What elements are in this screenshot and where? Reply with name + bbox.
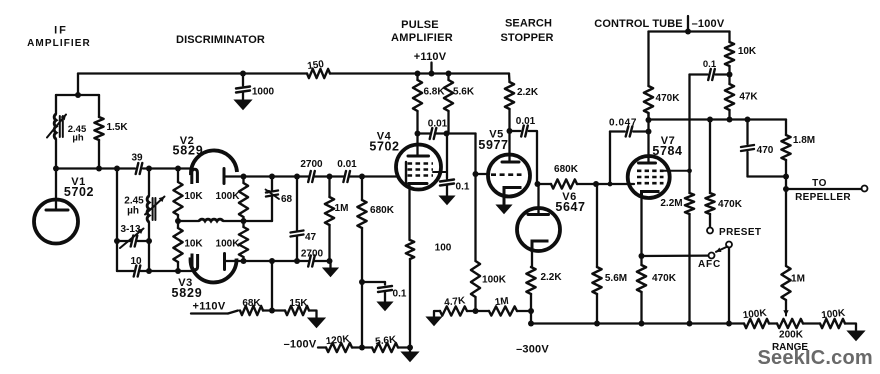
wire main bus left: [56, 167, 135, 169]
node 1.8M dots: [783, 174, 789, 180]
tube V2 envelope arc: [191, 150, 237, 175]
wire 0.047 link a: [610, 130, 625, 132]
electrode V5 cathode: [504, 188, 522, 206]
resistor R 10K upper: [177, 169, 179, 183]
inductor L1 2.45uh variable: [54, 114, 56, 139]
wire 120K-5.6K link: [352, 346, 372, 348]
svg-text:10K: 10K: [738, 46, 757, 57]
ground for 1000: [235, 100, 252, 110]
ground bottom right: [848, 331, 865, 341]
svg-text:5647: 5647: [555, 200, 585, 214]
svg-text:1M: 1M: [494, 296, 509, 308]
svg-text:5.6K: 5.6K: [453, 87, 475, 98]
capacitor 470: [746, 120, 748, 145]
electrode V7 cathode: [642, 192, 660, 199]
wire tank right lower: [98, 140, 100, 169]
node grid tap dot: [687, 168, 692, 173]
svg-text:2700: 2700: [301, 249, 324, 260]
resistor R 470K preset: [709, 120, 711, 194]
wire V3 right tick: [225, 260, 244, 262]
node V5 grid node: [473, 171, 479, 177]
wire +110V rail left: [78, 72, 307, 74]
svg-text:AMPLIFIER: AMPLIFIER: [27, 38, 91, 49]
wire 0.1 branch: [362, 281, 385, 283]
tube V7 envelope: [628, 156, 670, 198]
svg-text:1M: 1M: [791, 274, 805, 285]
node V5 plate junction: [507, 128, 513, 134]
svg-text:µh: µh: [127, 206, 139, 217]
svg-text:680K: 680K: [554, 164, 579, 175]
svg-text:6.8K: 6.8K: [423, 87, 445, 98]
svg-text:PRESET: PRESET: [719, 227, 761, 238]
svg-text:39: 39: [131, 153, 143, 164]
wire bottom line: [531, 322, 744, 324]
resistor R 100K grid leak: [474, 174, 476, 261]
tube V5 envelope: [488, 155, 530, 197]
node 680K out: [593, 181, 599, 187]
wire 3-13 link left: [117, 240, 131, 242]
resistor R 100K upper: [242, 177, 244, 184]
wire column x149 mid: [148, 222, 150, 241]
wire -100V rail: [649, 30, 730, 32]
resistor R 4.7K: [440, 306, 467, 315]
wire 68K-15K link: [263, 309, 285, 311]
wire tank left upper: [55, 95, 57, 114]
resistor R 100K bottom right: [820, 319, 845, 328]
inductor L3 center tap: [199, 219, 223, 221]
wire 15K to ground: [309, 311, 317, 319]
node 680K col at bus: [359, 345, 365, 351]
svg-text:15K: 15K: [289, 298, 308, 309]
resistor R 1.8M: [785, 120, 787, 136]
svg-text:0.01: 0.01: [516, 116, 536, 127]
wire plate out a: [418, 132, 431, 134]
svg-text:0.1: 0.1: [703, 59, 717, 70]
wire top out line a: [244, 175, 310, 177]
wire mid line right: [223, 220, 272, 222]
svg-text:5829: 5829: [171, 286, 202, 300]
electrode V7 plate: [639, 162, 656, 165]
ground for V5 cathode: [497, 205, 512, 214]
wire V5 plate out a: [510, 130, 521, 132]
svg-text:µh: µh: [72, 133, 83, 144]
svg-text:0.047: 0.047: [609, 118, 637, 129]
svg-text:5977: 5977: [478, 138, 508, 152]
resistor R 15K: [285, 306, 309, 315]
resistor R 470K supply: [647, 32, 649, 87]
electrode V6 cathode: [532, 241, 549, 252]
resistor R 6.8K: [416, 74, 418, 81]
svg-text:IF: IF: [54, 25, 68, 37]
wire to V5 grid: [476, 173, 490, 175]
resistor R 1M: [328, 177, 330, 198]
electrode V4 cathode: [409, 182, 428, 185]
svg-text:47K: 47K: [739, 92, 758, 103]
wire to ground bottom right: [845, 324, 856, 332]
ground for 4.7K: [427, 317, 442, 326]
electrode V4 grids dashed: [408, 162, 434, 165]
ground at bus end: [409, 348, 411, 353]
resistor 150 on rail: [307, 69, 330, 78]
ground for 15K: [308, 318, 325, 328]
wire 5.6K to cathode column: [398, 346, 410, 348]
svg-text:1M: 1M: [335, 203, 349, 214]
svg-text:5829: 5829: [172, 144, 203, 158]
wire 68 column lower: [271, 197, 273, 222]
capacitor 2700 coupling top: [308, 171, 311, 182]
wire tank right upper: [98, 95, 100, 117]
node screen node: [444, 131, 450, 137]
wire V6 cathode lead: [531, 241, 533, 267]
resistor R 470K AFC: [640, 256, 642, 265]
resistor R 200K range pot: [777, 319, 803, 328]
svg-text:470K: 470K: [656, 93, 681, 104]
node mid line dots: [175, 218, 181, 224]
node 10K-47K junction: [727, 72, 733, 78]
electrode V1 plate bar: [46, 209, 68, 212]
wire 2.2M column: [688, 75, 690, 171]
wire 68 column upper: [271, 177, 273, 191]
svg-text:100K: 100K: [216, 239, 241, 250]
svg-text:2.2K: 2.2K: [540, 272, 562, 283]
wire 0.047 riser: [609, 132, 611, 185]
wire 0.1 link b: [716, 73, 730, 75]
switch pivot: [726, 242, 732, 248]
svg-text:SEARCH: SEARCH: [505, 18, 552, 30]
electrode V3 left: [192, 254, 198, 270]
svg-text:PULSE: PULSE: [401, 19, 439, 31]
wire 68K link: [228, 311, 238, 314]
arrow pot wiper: [785, 304, 787, 316]
resistor R 1M bias: [489, 306, 517, 315]
wire 1M to V6 column: [517, 310, 531, 312]
node V6 col dots: [528, 308, 534, 314]
wire V2 right tick: [224, 175, 244, 177]
svg-text:AMPLIFIER: AMPLIFIER: [391, 32, 453, 44]
node top line dots: [241, 174, 247, 180]
electrode V6 plate: [528, 213, 549, 216]
wire bottom out line b: [315, 260, 330, 262]
wire coupling drop: [474, 134, 476, 175]
svg-text:1.8M: 1.8M: [793, 135, 815, 146]
terminal AFC contact: [709, 253, 715, 259]
terminal repeller: [862, 186, 868, 192]
wire top out line c: [350, 175, 399, 177]
wire to V7 grid: [596, 183, 634, 185]
wire V4 screen tick: [433, 171, 447, 173]
svg-text:REPELLER: REPELLER: [795, 192, 851, 203]
resistor R 5.6M: [596, 184, 598, 267]
svg-text:2700: 2700: [300, 159, 323, 170]
svg-text:100K: 100K: [482, 275, 507, 286]
svg-text:CONTROL TUBE: CONTROL TUBE: [594, 18, 682, 30]
inductor L2 2.45uh variable: [147, 196, 149, 222]
svg-text:10K: 10K: [184, 239, 203, 250]
svg-text:680K: 680K: [370, 205, 395, 216]
resistor R 120K: [326, 343, 352, 352]
capacitor 1000: [242, 74, 244, 86]
wire V6 col to bottom line: [530, 311, 532, 324]
wire bottom out line a: [244, 260, 310, 262]
ground at 1M bottom: [329, 261, 331, 268]
wire +110V rail right: [330, 72, 509, 74]
wire bias line: [649, 118, 787, 120]
wire cathode column lower: [409, 259, 411, 348]
capacitor 0.01 V4 out: [430, 128, 433, 139]
svg-text:200K: 200K: [779, 330, 804, 341]
svg-text:100K: 100K: [216, 191, 241, 202]
wire V4 cathode lead: [408, 184, 410, 241]
svg-text:0.1: 0.1: [393, 289, 407, 300]
ground for screen bypass: [440, 196, 455, 205]
svg-text:STOPPER: STOPPER: [500, 32, 553, 44]
wire repeller line: [786, 188, 862, 190]
wire 10 link left: [117, 270, 134, 272]
wire IF feed vertical: [77, 74, 79, 96]
svg-text:100: 100: [435, 243, 452, 254]
capacitor 3-13 variable: [131, 236, 134, 247]
wire 10 link right: [141, 270, 192, 272]
resistor R 2.2K plate: [505, 82, 514, 109]
svg-text:68: 68: [281, 194, 293, 205]
wire 47 column lower: [296, 237, 298, 262]
electrode V4 grid bracket: [405, 162, 407, 184]
node bias line dots: [707, 117, 713, 123]
capacitor 39: [136, 163, 139, 174]
wire 100K-200K link: [769, 322, 777, 324]
svg-text:0.1: 0.1: [456, 182, 470, 193]
electrode V7 grids dashed: [637, 170, 664, 173]
ground for 0.1 branch: [378, 302, 393, 311]
node 680K col tap: [359, 279, 365, 285]
tube V4 envelope: [396, 145, 441, 190]
electrode V5 grid dashed: [491, 173, 522, 176]
svg-text:+110V: +110V: [414, 51, 447, 63]
node rail junction dots: [240, 71, 246, 77]
node bias node: [473, 308, 479, 314]
wire 47 column upper: [296, 177, 298, 231]
node 3-13 dots: [114, 238, 120, 244]
terminal PRESET: [707, 228, 713, 234]
resistor R 2.2K cathode V6: [526, 267, 535, 294]
svg-text:4.7K: 4.7K: [444, 295, 467, 308]
wire pot wiper: [785, 300, 787, 313]
node tank top junction: [75, 92, 81, 98]
capacitor 0.1 top right: [708, 69, 711, 80]
svg-text:3-13: 3-13: [120, 224, 140, 235]
wire -100V lead: [318, 346, 326, 348]
node V4 plate junction: [415, 131, 421, 137]
capacitor 0.1 branch: [384, 282, 386, 285]
wire 4.7K gnd elbow: [434, 311, 440, 317]
node bottom-left dots: [146, 268, 152, 274]
resistor R 680K coupling: [537, 183, 551, 185]
electrode V4 plate: [408, 155, 429, 158]
node -100V dot: [685, 29, 691, 35]
svg-text:1.5K: 1.5K: [106, 122, 128, 133]
capacitor 10: [134, 266, 137, 277]
wire rail corner to 2.2K: [508, 74, 511, 83]
resistor R 2.2M: [685, 193, 694, 214]
svg-text:SeekIC.com: SeekIC.com: [758, 347, 873, 369]
svg-text:–100V: –100V: [284, 339, 317, 351]
node 0.047 tap: [608, 182, 613, 187]
svg-text:47: 47: [305, 232, 317, 243]
wire V5 plate out b: [529, 131, 537, 184]
node 470K bottom: [646, 117, 652, 123]
svg-text:TO: TO: [812, 178, 827, 189]
svg-text:+110V: +110V: [192, 301, 225, 313]
wire tank left lower: [55, 139, 57, 169]
svg-text:0.01: 0.01: [337, 159, 357, 170]
wire 470 bottom elbow: [748, 175, 787, 177]
resistor R 10K top right: [728, 32, 730, 43]
electrode V3 right bar: [223, 254, 226, 270]
svg-text:2.2M: 2.2M: [660, 198, 682, 209]
wire 68K junction riser: [271, 261, 273, 311]
wire column x149 upper: [148, 169, 150, 197]
wire AFC line: [642, 254, 709, 257]
switch arm with arrowhead: [716, 247, 728, 252]
wire tank top: [56, 94, 99, 96]
resistor R 10K lower: [177, 221, 179, 228]
resistor R 680K vertical: [361, 177, 363, 201]
svg-text:68K: 68K: [242, 298, 261, 309]
resistor R 68K: [240, 306, 263, 315]
electrode V2 left: [192, 169, 198, 184]
resistor R 100K bottom left: [744, 319, 769, 328]
wire 200K-100K link: [803, 322, 820, 324]
capacitor 0.01 V5 out: [521, 126, 524, 137]
capacitor 0.1 screen bypass: [446, 134, 448, 179]
svg-text:10K: 10K: [184, 191, 203, 202]
svg-text:1000: 1000: [252, 87, 275, 98]
node V6 plate node: [535, 181, 541, 187]
resistor R 100 cathode: [406, 240, 414, 259]
svg-text:5.6M: 5.6M: [605, 273, 627, 284]
electrode V5 plate: [502, 161, 519, 164]
wire V7 cathode lead: [640, 198, 642, 256]
wire top out line b: [315, 175, 345, 177]
capacitor 0.01 coupling top: [343, 171, 346, 182]
wire column x149 lower: [148, 241, 150, 271]
wire main bus right: [143, 167, 192, 169]
wire V1 plate lead: [55, 169, 57, 211]
svg-text:470: 470: [757, 145, 774, 156]
electrode V2 right bar: [223, 169, 226, 184]
capacitor 47: [291, 231, 304, 233]
resistor R 1M repeller: [781, 266, 790, 300]
node bus end: [407, 345, 413, 351]
wire switch column: [728, 248, 730, 324]
wire 0.1 link a: [690, 73, 708, 75]
capacitor 68 trimmer: [266, 191, 278, 193]
svg-text:470K: 470K: [718, 199, 743, 210]
svg-text:5702: 5702: [369, 140, 399, 154]
node bottom line dots: [241, 258, 247, 264]
tube V6 envelope: [517, 208, 560, 251]
resistor R 5.6K bus: [372, 343, 398, 352]
node bus dots: [53, 166, 59, 172]
wire V7 grid tap right: [664, 170, 690, 172]
node -100V top supply: [687, 16, 689, 30]
node V7 cathode junction: [639, 253, 645, 259]
wire plate out b: [435, 132, 475, 134]
node 68K junction: [269, 308, 275, 314]
resistor R 1.5K: [94, 117, 103, 140]
svg-text:–100V: –100V: [692, 18, 725, 30]
resistor R 5.6K screen: [447, 74, 449, 81]
tube V1 envelope: [34, 200, 78, 244]
svg-text:AFC: AFC: [698, 259, 721, 270]
resistor R 100K lower: [242, 221, 244, 227]
wire 3-13 link right: [138, 240, 150, 242]
svg-text:2.2K: 2.2K: [517, 87, 539, 98]
capacitor 0.047: [626, 127, 629, 137]
svg-text:–300V: –300V: [516, 344, 549, 356]
svg-text:10: 10: [130, 256, 142, 267]
svg-text:0.01: 0.01: [428, 119, 448, 130]
svg-text:5702: 5702: [64, 185, 94, 199]
wire 4.7K-1M link: [467, 310, 489, 312]
tube V3 envelope arc: [191, 258, 237, 283]
wire column x117 lower: [116, 241, 118, 271]
svg-text:470K: 470K: [652, 273, 677, 284]
wire 0.047 link b: [633, 130, 648, 132]
resistor R 47K: [725, 84, 734, 110]
svg-text:5.6K: 5.6K: [375, 334, 398, 347]
node bottom line dots: [594, 321, 600, 327]
wire mid line left: [178, 220, 199, 222]
capacitor 2700 coupling bottom: [308, 256, 311, 267]
wire column x117: [116, 169, 118, 242]
svg-text:DISCRIMINATOR: DISCRIMINATOR: [176, 34, 265, 46]
